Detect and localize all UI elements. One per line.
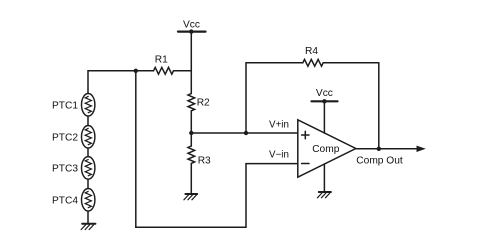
node at comparator Vcc bar xyxy=(322,99,326,103)
svg-text:R2: R2 xyxy=(197,98,210,109)
svg-text:Vcc: Vcc xyxy=(316,88,333,99)
node D (output / feedback junction) xyxy=(377,147,381,151)
svg-text:Comp: Comp xyxy=(312,144,340,155)
wire V+in from divider to comparator xyxy=(191,132,297,134)
wire Vcc rail down to R2 xyxy=(190,32,192,94)
resistor R3 xyxy=(188,133,211,193)
svg-text:PTC1: PTC1 xyxy=(52,101,78,112)
pin - (inverting) xyxy=(302,163,309,165)
node B (R2/R3 divider, V+in) xyxy=(189,131,193,135)
resistor R4 xyxy=(246,46,379,66)
pin + (non-inverting) xyxy=(302,134,309,136)
thermistor PTC4 xyxy=(52,189,95,212)
wire PTC4 to ground xyxy=(87,211,89,223)
thermistor PTC3 xyxy=(52,157,95,180)
svg-text:PTC3: PTC3 xyxy=(52,164,78,175)
svg-text:Comp Out: Comp Out xyxy=(356,155,403,166)
wire comparator output xyxy=(356,148,417,150)
ground (below PTC4) xyxy=(81,224,95,230)
arrow Comp Out xyxy=(417,146,426,152)
wire PTC1 to PTC2 xyxy=(87,116,89,126)
ground (comparator) xyxy=(317,192,331,198)
svg-text:R1: R1 xyxy=(155,54,168,65)
svg-text:Vcc: Vcc xyxy=(183,20,200,31)
ground (below R3) xyxy=(184,194,197,200)
op-amp U1 comparator xyxy=(298,120,356,177)
wire PTC2 to PTC3 xyxy=(87,148,89,157)
thermistor PTC1 xyxy=(52,94,95,117)
wire R4 left leg xyxy=(245,63,247,133)
node A (PTC top / feedback junction) xyxy=(134,69,138,73)
svg-text:R3: R3 xyxy=(198,155,211,166)
resistor R2 xyxy=(188,94,210,134)
svg-text:PTC4: PTC4 xyxy=(52,196,78,207)
thermistor PTC2 xyxy=(52,126,95,149)
wire comparator to ground xyxy=(323,164,325,191)
svg-text:V−in: V−in xyxy=(269,150,289,161)
svg-text:V+in: V+in xyxy=(269,120,289,131)
wire feedback: node A down, across bottom, up to V-in xyxy=(136,71,246,228)
node at Vcc bar xyxy=(189,29,193,33)
power Vcc (top rail) xyxy=(178,20,206,32)
wire R4 right leg down to output xyxy=(378,63,380,149)
wire PTC3 to PTC4 xyxy=(87,179,89,188)
wire V-in into comparator xyxy=(246,163,298,165)
svg-text:R4: R4 xyxy=(305,46,318,57)
wire PTC chain top to R1 xyxy=(88,71,154,94)
node C (feedback tap on V+in wire) xyxy=(244,131,248,135)
power Vcc (comparator supply) xyxy=(312,88,338,133)
resistor R1 xyxy=(154,54,192,74)
svg-text:PTC2: PTC2 xyxy=(52,133,78,144)
